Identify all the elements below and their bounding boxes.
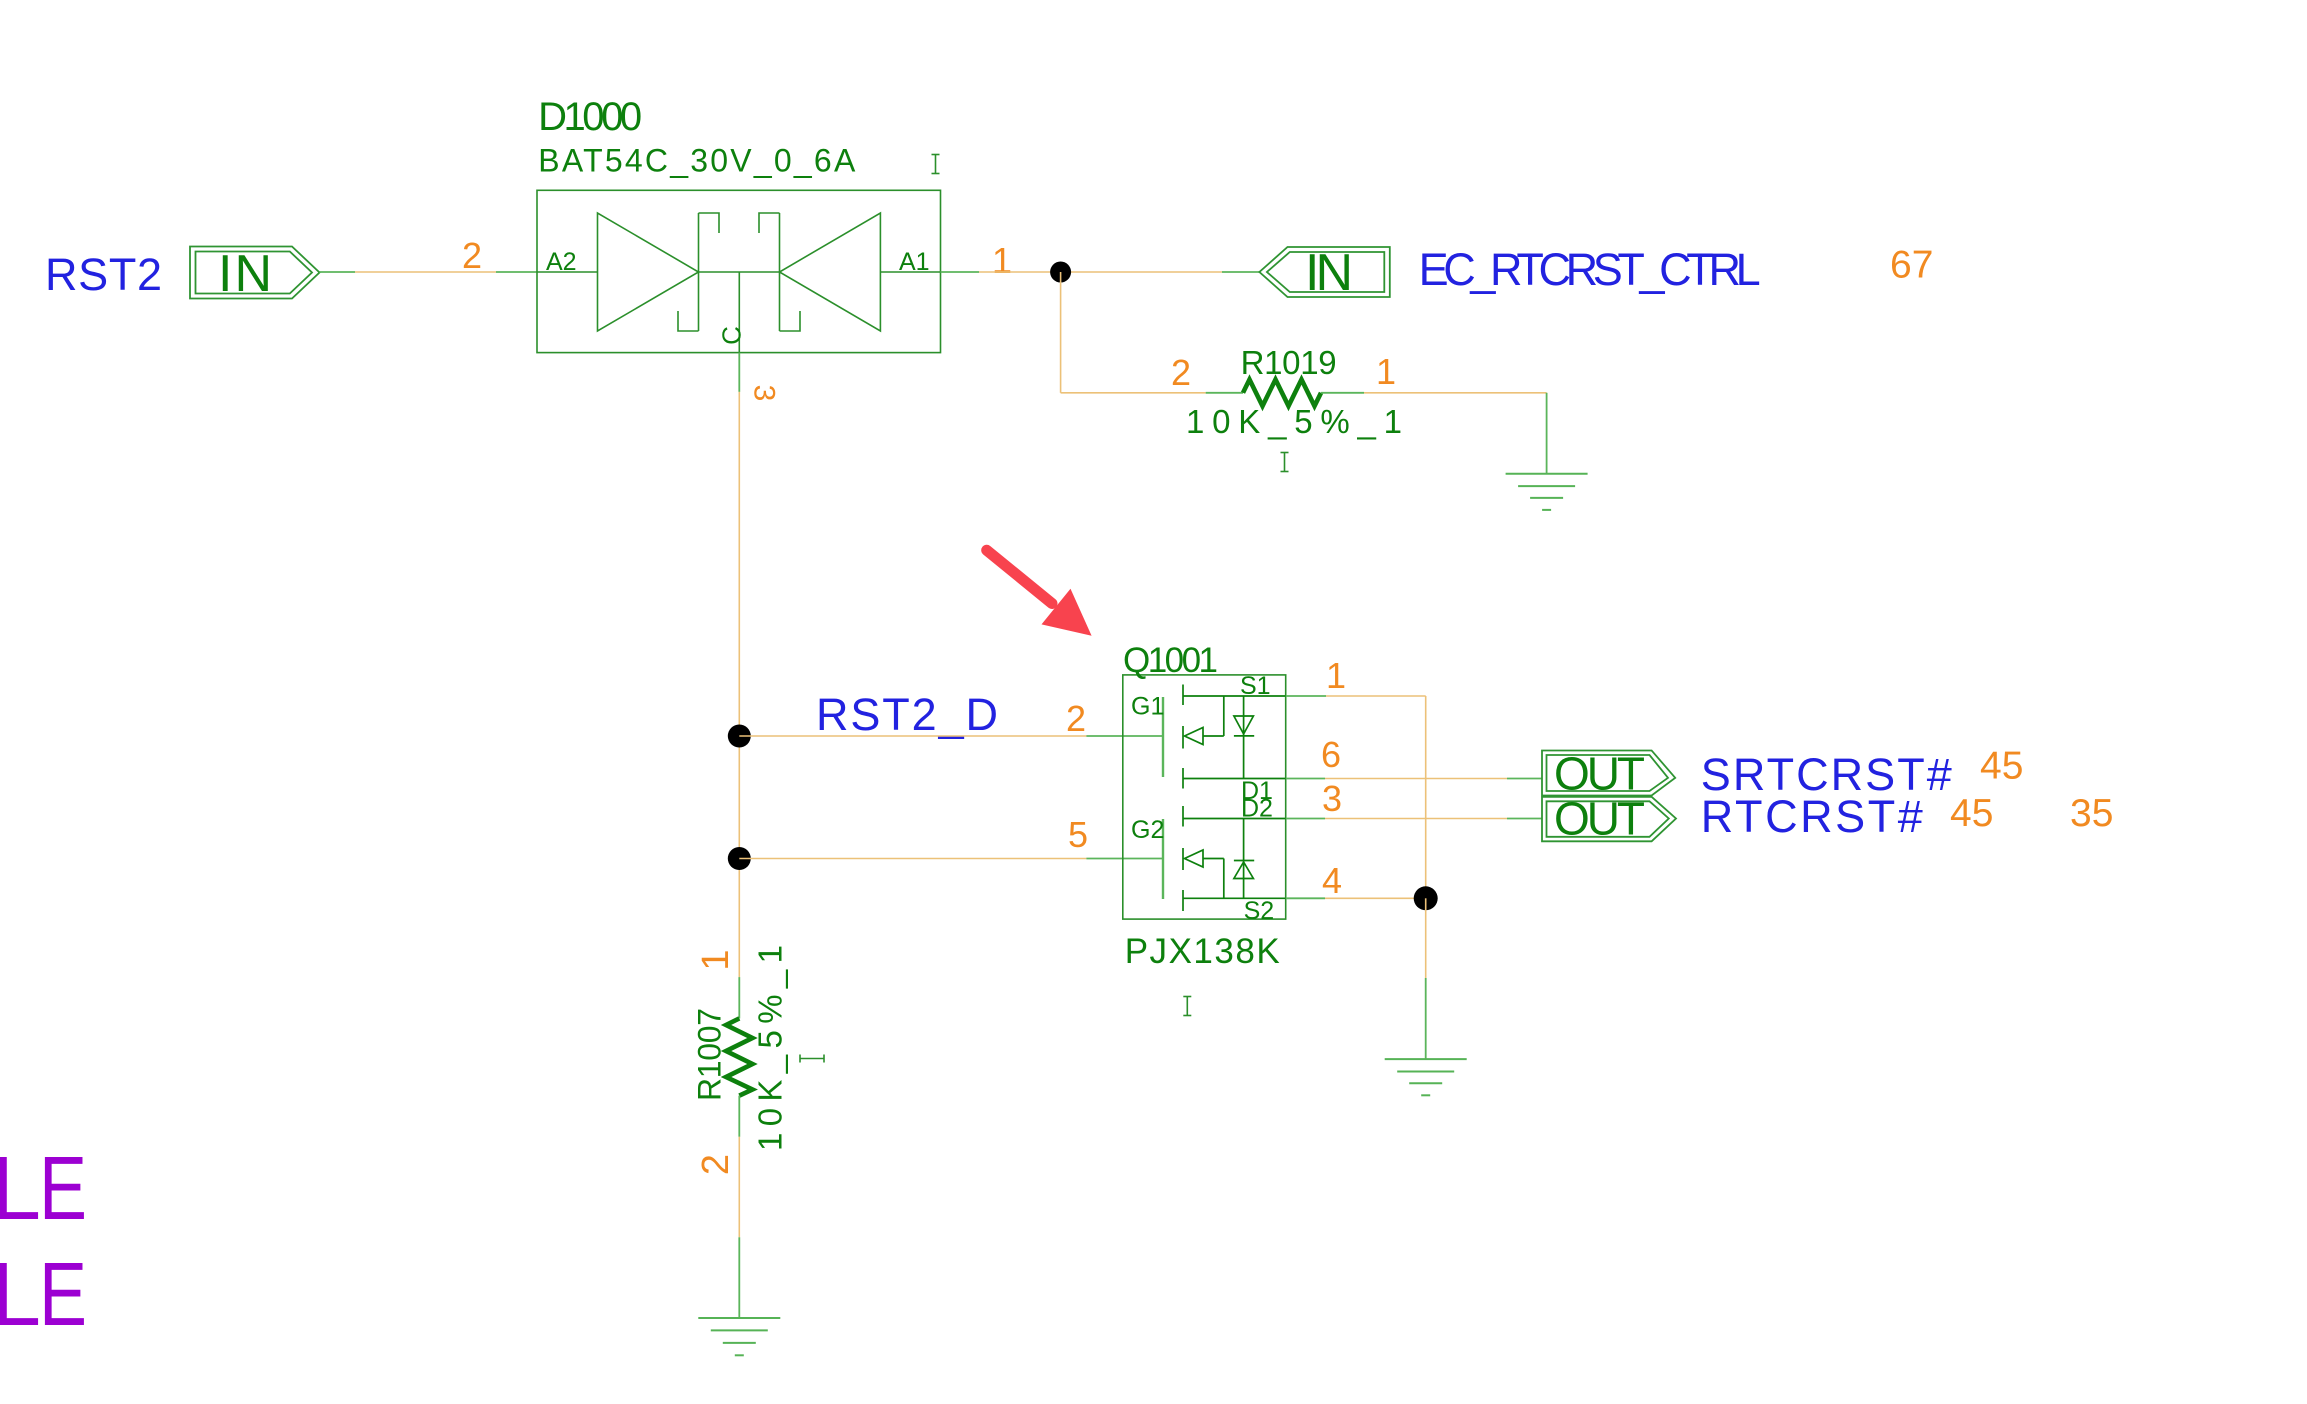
svg-text:3: 3: [748, 385, 781, 402]
wire junction down: [1425, 898, 1427, 978]
svg-text:2: 2: [695, 1154, 737, 1175]
svg-text:45: 45: [1950, 792, 1993, 835]
svg-text:D2: D2: [1241, 795, 1273, 823]
svg-text:R1019: R1019: [1241, 344, 1337, 381]
Q1001 channel-2 gate bar: [1162, 819, 1164, 899]
Q1001 channel-1 gate bar: [1162, 697, 1164, 777]
pin stub D1: [1286, 778, 1325, 780]
wire corner down to junction: [1425, 696, 1427, 898]
pin stub D1000 pin3: [738, 353, 740, 392]
svg-text:10K_5%_1: 10K_5%_1: [1186, 403, 1402, 440]
junction RST2_D / G1: [728, 725, 751, 748]
svg-text:67: 67: [1890, 244, 1933, 287]
svg-text:PJX138K: PJX138K: [1125, 932, 1280, 971]
svg-text:5: 5: [1068, 814, 1088, 855]
svg-text:L: L: [0, 1139, 41, 1239]
pin stub D1000 A2: [496, 271, 537, 273]
svg-text:45: 45: [1980, 745, 2023, 788]
pin stub D2: [1286, 818, 1325, 820]
port IN (EC_RTCRST_CTRL): [1259, 247, 1389, 297]
svg-text:1: 1: [1326, 655, 1346, 696]
wire D2 to OUT port (net RTCRST#): [1325, 818, 1507, 820]
svg-text:10K_5%_1: 10K_5%_1: [752, 945, 789, 1151]
svg-text:OUT: OUT: [1554, 793, 1645, 845]
svg-text:Q1001: Q1001: [1123, 641, 1218, 680]
pin stub EC port: [1222, 271, 1259, 273]
instance mark I (D1000): [932, 155, 940, 174]
pin stub D1000 A1: [941, 271, 980, 273]
Q1001 channel-1 body: [1183, 685, 1286, 789]
pin stub OUT port 2: [1507, 818, 1542, 820]
wire net RST2_D vertical: [738, 392, 740, 977]
svg-text:S2: S2: [1244, 897, 1275, 925]
wire net RST2: [355, 271, 496, 273]
svg-text:E: E: [39, 1139, 87, 1239]
wire junction down to R1019: [1060, 272, 1062, 393]
instance mark I (R1007, rotated): [800, 1055, 824, 1063]
wire RST2_D to G1: [739, 735, 1086, 737]
Q1001 channel-2 body: [1183, 806, 1286, 911]
ground (R1007): [698, 1318, 780, 1355]
ground stub (R1007): [738, 1237, 740, 1318]
port IN (RST2): [190, 247, 320, 299]
junction S2 net: [1414, 886, 1438, 910]
pin stub OUT port 1: [1507, 778, 1542, 780]
pin stub R1007 pin1: [738, 977, 740, 1018]
svg-text:IN: IN: [1305, 244, 1353, 302]
svg-text:2: 2: [1066, 698, 1086, 739]
svg-text:A2: A2: [546, 248, 577, 276]
pin stub G1: [1086, 735, 1162, 737]
pin stub from RST2 port: [320, 271, 356, 273]
wire RST2_D to G2: [739, 858, 1086, 860]
port OUT (RTCRST#): [1542, 797, 1676, 842]
svg-text:EC_RTCRST_CTRL: EC_RTCRST_CTRL: [1419, 244, 1761, 295]
svg-text:D1000: D1000: [538, 95, 642, 139]
junction on EC_RTCRST_CTRL: [1050, 262, 1071, 283]
svg-text:RST2: RST2: [45, 249, 162, 300]
svg-text:3: 3: [1322, 778, 1342, 819]
svg-text:G2: G2: [1131, 816, 1164, 844]
svg-text:4: 4: [1322, 860, 1342, 901]
pin stub S1: [1286, 695, 1326, 697]
wire corner down (ground stub): [1546, 393, 1548, 474]
transistor Q1001 (dual N-MOSFET PJX138K): [1123, 672, 1286, 925]
diode D1000 (dual schottky BAT54C): [537, 190, 941, 352]
svg-text:2: 2: [1171, 352, 1191, 393]
instance mark I (R1019): [1281, 453, 1289, 472]
svg-text:1: 1: [1376, 351, 1396, 392]
wire S1 to corner: [1326, 695, 1426, 697]
port OUT (SRTCRST#): [1542, 751, 1675, 796]
svg-text:IN: IN: [218, 245, 272, 303]
wire S2 to junction: [1325, 897, 1426, 899]
instance mark I (Q1001): [1183, 997, 1191, 1016]
svg-text:G1: G1: [1131, 693, 1164, 721]
wire net EC_RTCRST_CTRL: [979, 271, 1222, 273]
svg-text:R1007: R1007: [692, 1008, 728, 1101]
wire R1019 pin1 to ground corner: [1364, 392, 1547, 394]
wire R1007 pin2 to ground: [738, 1137, 740, 1237]
junction RST2_D / G2: [728, 847, 751, 870]
pin stub S2: [1286, 897, 1325, 899]
ground (Q1001): [1385, 1059, 1467, 1095]
svg-text:6: 6: [1321, 734, 1341, 775]
annotation red arrow: [987, 550, 1052, 603]
ground stub (Q1001): [1425, 978, 1427, 1059]
svg-text:1: 1: [695, 949, 737, 970]
svg-text:RST2_D: RST2_D: [816, 689, 998, 740]
pin stub G2: [1086, 858, 1162, 860]
svg-text:RTCRST#: RTCRST#: [1701, 791, 1923, 842]
svg-text:A1: A1: [899, 248, 930, 276]
svg-text:C: C: [717, 326, 747, 345]
resistor R1019: [1206, 392, 1243, 394]
svg-text:L: L: [0, 1245, 41, 1345]
svg-text:S1: S1: [1240, 672, 1271, 700]
wire D1 to OUT port (net SRTCRST#): [1325, 778, 1507, 780]
svg-text:35: 35: [2070, 792, 2113, 835]
ground (R1019): [1506, 474, 1588, 510]
wire to R1019 pin 2: [1061, 392, 1206, 394]
svg-text:E: E: [39, 1245, 87, 1345]
svg-text:2: 2: [462, 235, 482, 276]
svg-text:1: 1: [992, 240, 1012, 281]
svg-text:BAT54C_30V_0_6A: BAT54C_30V_0_6A: [538, 143, 856, 179]
resistor R1007: [726, 1018, 753, 1095]
pin stub R1007 pin2: [738, 1096, 740, 1137]
